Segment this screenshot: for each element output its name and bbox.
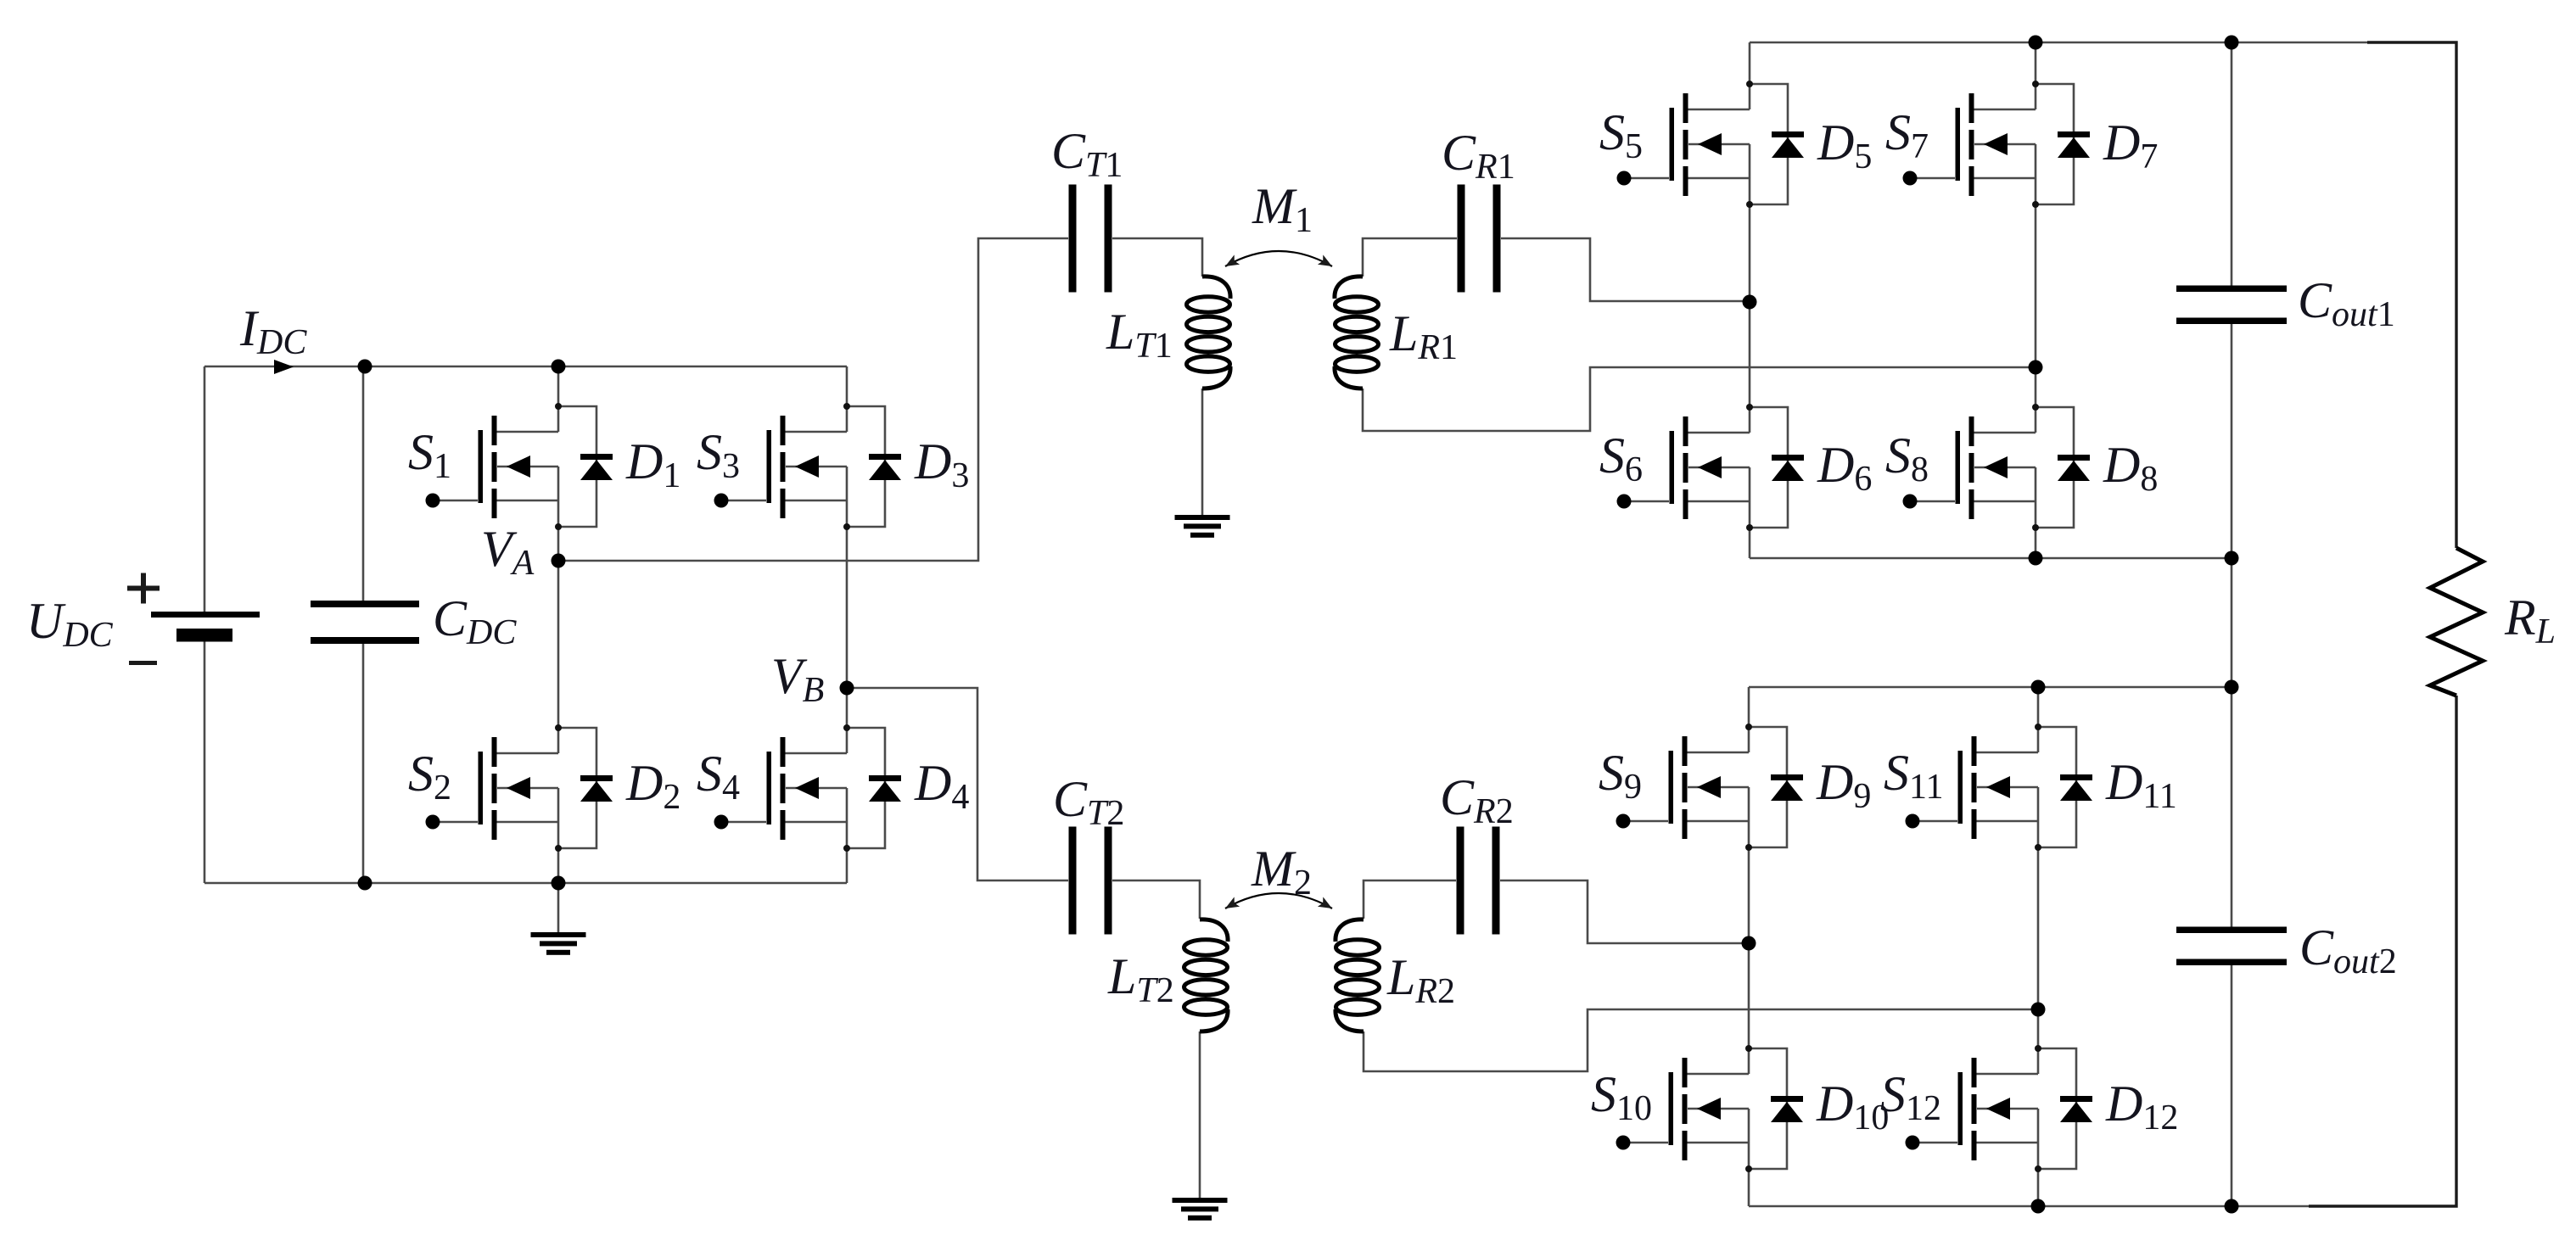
svg-text:Cout2: Cout2: [2299, 919, 2397, 981]
inductor L_R2: [1336, 919, 1380, 1031]
svg-text:LT2: LT2: [1107, 948, 1174, 1010]
inductor L_T2: [1184, 919, 1229, 1031]
svg-text:D8: D8: [2103, 437, 2158, 499]
wire: S11 drain lead: [2037, 687, 2040, 727]
svg-text:IDC: IDC: [239, 300, 307, 362]
capacitor C_T2: [1069, 827, 1112, 935]
wire: midpoint to S10 drain: [1748, 943, 1750, 1048]
svg-text:S7: S7: [1885, 104, 1929, 166]
wire: S8 source to rail: [2035, 528, 2037, 558]
wire: S2 source to bottom rail: [557, 848, 560, 883]
wire: C_DC top lead: [362, 366, 365, 601]
svg-text:S3: S3: [697, 424, 740, 486]
wire: S7 source to midpoint: [2035, 204, 2037, 367]
transistor S12 with body diode D12: [1906, 1045, 2093, 1172]
transistor S10 with body diode D10: [1616, 1045, 1804, 1172]
capacitor C_out2: [2176, 927, 2287, 966]
transistor S8 with body diode D8: [1903, 404, 2091, 531]
resistor R_L: [2430, 548, 2483, 696]
node rect2 input lower: [2031, 1003, 2046, 1017]
junction dot S1 leg top: [552, 360, 566, 374]
svg-text:CDC: CDC: [433, 590, 517, 652]
svg-text:CR1: CR1: [1442, 125, 1515, 187]
svg-text:LR1: LR1: [1389, 305, 1458, 367]
wire: L_R2 top to C_R2: [1364, 880, 1456, 919]
junction dot C_DC top: [358, 360, 372, 374]
svg-text:S2: S2: [408, 746, 451, 808]
svg-text:S4: S4: [697, 746, 740, 808]
wire: midpoint to S12 drain: [2037, 1009, 2040, 1048]
wire: rectifier1 top rail: [1750, 42, 2456, 44]
wire: rectifier2 top rail: [1749, 686, 2232, 689]
wire: S9 drain lead: [1748, 687, 1750, 727]
battery plus sign: [127, 573, 160, 604]
wire: C_T2 to L_T2: [1112, 880, 1200, 919]
svg-text:CT2: CT2: [1053, 771, 1124, 833]
coupling arrow M1: [1225, 251, 1332, 266]
wire: series link rect1 to rect2: [2231, 558, 2233, 687]
wire: C_DC bottom lead: [362, 644, 365, 883]
wire: R_L branch dark leads: [2309, 42, 2456, 1206]
transistor S1 with body diode D1: [426, 403, 613, 530]
wire: C_out1 top lead: [2231, 42, 2233, 288]
node VB: [840, 681, 854, 696]
capacitor C_T1: [1069, 185, 1112, 293]
wire: C_R2 to rectifier2 upper input: [1500, 880, 1749, 943]
inductor L_R1: [1335, 277, 1379, 388]
junction dot ground rail: [552, 876, 566, 891]
svg-text:D11: D11: [2105, 754, 2177, 816]
svg-text:S5: S5: [1599, 104, 1643, 166]
wire: S3 source to node VB: [846, 527, 848, 688]
wire: L_R1 top to C_R1: [1363, 238, 1457, 277]
wire: S1 source to node VA: [557, 527, 560, 561]
junction dot rect2 top rail S11: [2031, 680, 2046, 695]
coupling arrow M2: [1225, 893, 1332, 908]
svg-text:D3: D3: [914, 433, 969, 495]
svg-text:S1: S1: [408, 424, 451, 486]
transistor S9 with body diode D9: [1616, 724, 1804, 851]
wire: S3 drain lead: [846, 366, 848, 406]
svg-text:D1: D1: [625, 433, 680, 495]
node rect2 input upper: [1742, 936, 1756, 951]
junction dot C_DC bottom: [358, 876, 372, 891]
transistor S6 with body diode D6: [1617, 404, 1805, 531]
svg-text:S6: S6: [1599, 428, 1643, 489]
wire: rectifier1 bottom rail: [1750, 557, 2232, 560]
svg-text:S12: S12: [1880, 1066, 1941, 1128]
svg-text:UDC: UDC: [26, 593, 114, 655]
wire: S9 source to midpoint: [1748, 847, 1750, 943]
wire: ground stem inverter: [557, 883, 560, 933]
junction dot rect1 bottom rail S8: [2029, 551, 2043, 566]
wire: S4 source to bottom rail: [846, 848, 848, 883]
wire: L_R1 bottom to rectifier1 lower input: [1363, 367, 2036, 431]
transistor S11 with body diode D11: [1906, 724, 2093, 851]
wire: DC bottom rail: [204, 882, 847, 885]
svg-text:LT1: LT1: [1106, 304, 1173, 366]
I_DC arrow: [274, 360, 294, 374]
ground L_T1: [1175, 515, 1230, 538]
junction dot rect1 bottom rail C_out1: [2225, 551, 2239, 566]
node VA: [552, 554, 566, 568]
wire: S1 drain lead: [557, 366, 560, 406]
wire: L_T1 to ground: [1201, 388, 1204, 516]
svg-text:CT1: CT1: [1051, 123, 1123, 185]
svg-text:D2: D2: [625, 755, 680, 817]
wire: S5 source to midpoint: [1749, 204, 1751, 302]
junction dot rect1 top rail C_out1: [2225, 36, 2239, 50]
svg-text:LR2: LR2: [1386, 949, 1455, 1011]
svg-text:Cout1: Cout1: [2298, 272, 2395, 334]
wire: L_T2 to ground: [1199, 1031, 1201, 1199]
ground L_T2: [1173, 1198, 1228, 1221]
wire: C_out2 top lead: [2231, 687, 2233, 930]
wire: VA to tank1: [558, 238, 1068, 561]
wire: DC top rail: [204, 366, 847, 368]
svg-text:D12: D12: [2105, 1076, 2178, 1137]
wire: midpoint to S6 drain: [1749, 302, 1751, 407]
junction dot rect2 bottom rail C_out2: [2225, 1199, 2239, 1214]
wire: S10 source to rail: [1748, 1169, 1750, 1206]
svg-text:M1: M1: [1252, 178, 1313, 240]
svg-text:D5: D5: [1817, 115, 1872, 176]
battery U_DC: [151, 612, 260, 642]
wire: R_L bottom to rect2 rail: [2456, 696, 2458, 1206]
wire: S6 source to rail: [1749, 528, 1751, 558]
transistor S3 with body diode D3: [714, 403, 902, 530]
svg-text:S9: S9: [1599, 745, 1642, 807]
svg-text:M2: M2: [1251, 841, 1312, 903]
svg-text:D10: D10: [1816, 1076, 1889, 1137]
wire: battery negative drop: [204, 641, 206, 883]
wire: S7 drain lead: [2035, 42, 2037, 84]
junction dot rect2 bottom rail S12: [2031, 1199, 2046, 1214]
svg-text:VA: VA: [481, 521, 535, 583]
junction dot rect1 top rail S7: [2029, 36, 2043, 50]
svg-text:CR2: CR2: [1440, 769, 1514, 831]
svg-text:D4: D4: [914, 755, 969, 817]
svg-text:D6: D6: [1817, 437, 1872, 499]
svg-text:RL: RL: [2504, 590, 2556, 651]
svg-text:VB: VB: [771, 648, 824, 710]
node rect1 input lower: [2029, 361, 2043, 375]
ground inverter: [531, 932, 586, 955]
wire: C_out1 bottom lead: [2231, 321, 2233, 558]
svg-text:S10: S10: [1591, 1066, 1652, 1128]
transistor S4 with body diode D4: [714, 724, 902, 852]
wire: node VA to S2 drain: [557, 561, 560, 728]
transistor S5 with body diode D5: [1617, 81, 1805, 208]
capacitor C_DC: [311, 601, 419, 644]
svg-text:D9: D9: [1816, 754, 1871, 816]
wire: rectifier2 bottom rail: [1749, 1205, 2456, 1208]
wire: right edge to R_L top: [2456, 42, 2458, 548]
inductor L_T1: [1187, 277, 1231, 388]
node rect1 input upper: [1743, 295, 1757, 310]
wire: VB to tank2: [847, 688, 1068, 880]
svg-text:S8: S8: [1885, 428, 1929, 489]
wire: S11 source to midpoint: [2037, 847, 2040, 1009]
wire: L_R2 bottom to rectifier2 lower input: [1364, 1009, 2038, 1071]
wire: S12 source to rail: [2037, 1169, 2040, 1206]
capacitor C_R1: [1458, 185, 1501, 293]
wire: C_out2 bottom lead: [2231, 962, 2233, 1206]
wire: node VB to S4 drain: [846, 688, 848, 728]
wire: battery positive drop: [204, 366, 206, 612]
wire: S5 drain lead: [1749, 42, 1751, 84]
transistor S2 with body diode D2: [426, 724, 613, 852]
capacitor C_R2: [1457, 827, 1500, 935]
wire: C_R1 to rectifier1 upper input: [1501, 238, 1750, 301]
wire: midpoint to S8 drain: [2035, 367, 2037, 407]
junction dot rect2 top rail C_out2: [2225, 680, 2239, 695]
capacitor C_out1: [2176, 286, 2287, 325]
wire: C_T1 to L_T1: [1112, 238, 1202, 277]
battery minus sign: [129, 661, 157, 665]
transistor S7 with body diode D7: [1903, 81, 2091, 208]
svg-text:S11: S11: [1884, 745, 1943, 807]
svg-text:D7: D7: [2103, 115, 2158, 176]
